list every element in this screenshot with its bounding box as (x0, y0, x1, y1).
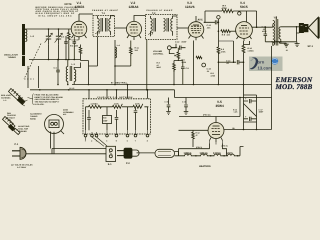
heater 12BA6 (192, 154, 208, 156)
heater 12AV6 (208, 154, 221, 156)
couplate resistor 1 (89, 105, 102, 108)
wire P-2 to socket (137, 152, 156, 154)
IF transformer T-2 (146, 15, 178, 40)
dashed gang link line (24, 44, 41, 80)
wire socket to heater string (175, 151, 179, 155)
wire R-8 to V-4 grid (230, 30, 236, 32)
antenna tuning label (4, 53, 18, 59)
resistor R-1 (67, 29, 70, 43)
wire grid line to V-1 (70, 28, 73, 30)
speaker SP-1 (299, 17, 318, 38)
svg-text:4.7MEG: 4.7MEG (91, 102, 99, 105)
resistor R-10 (242, 44, 245, 55)
wire heater string feed (239, 98, 241, 117)
filter capacitor network rails (244, 85, 257, 123)
resistor R-13 label (233, 108, 238, 113)
wire B+ vertical right rail (271, 46, 273, 130)
resistor R-5 label (182, 59, 187, 64)
wire T-2 secondary to V-3 grid (177, 27, 188, 29)
svg-text:.05MF: .05MF (181, 41, 187, 44)
resistor R-3 (173, 62, 176, 73)
resistor R-8 (221, 30, 231, 33)
capacitor C-14 (234, 60, 244, 64)
tube V-3 label (185, 1, 195, 9)
svg-text:.005: .005 (207, 27, 211, 30)
junction dots AVC line (48, 59, 70, 61)
svg-text:.01: .01 (286, 49, 289, 52)
terminal circle detector (202, 63, 206, 67)
variable capacitor C-1 (45, 29, 53, 44)
svg-text:MEG: MEG (157, 66, 162, 69)
couplate capacitor 3 (134, 108, 138, 130)
couplate capacitor 1 (87, 110, 91, 130)
ground tone capacitor (280, 42, 289, 47)
variable capacitor C-2 (55, 29, 63, 44)
watermark logo box (249, 57, 283, 72)
svg-text:SP-1: SP-1 (308, 45, 314, 48)
junction dots antenna line (48, 28, 60, 30)
tube V-5 label (216, 100, 225, 108)
svg-text:7: 7 (135, 139, 136, 142)
capacitor tone across T-3 (271, 40, 279, 44)
resistor R-12 (192, 130, 195, 147)
svg-text:150: 150 (227, 33, 230, 36)
alignment wand tip (14, 129, 20, 135)
alignment tuning wand label (18, 113, 42, 133)
tube V-1 12BE6 (71, 14, 87, 40)
resistor R-6 (196, 56, 202, 58)
svg-text:22K: 22K (75, 45, 79, 48)
couplate resistor 2 (113, 104, 123, 109)
terminal circle volume (167, 46, 171, 50)
svg-text:C-5 150: C-5 150 (72, 38, 79, 41)
svg-text:4: 4 (106, 139, 107, 142)
filter capacitor C-17B (244, 115, 257, 121)
wire branch vertical (233, 41, 235, 62)
svg-text:500K: 500K (182, 61, 187, 64)
capacitor C-17 label (259, 108, 265, 113)
rod antenna L-1 label (1, 94, 12, 102)
couplate terminal numbers (85, 139, 148, 142)
ground speaker return (295, 42, 300, 47)
junction dots AC bus (39, 89, 241, 98)
wire T-3 secondary bottom return (280, 39, 282, 42)
wire T-2 return to AC bus (146, 40, 148, 90)
svg-text:A-C ONLY: A-C ONLY (17, 166, 27, 169)
resistor R-10 label (248, 47, 255, 52)
svg-text:(PIN 4A): (PIN 4A) (203, 114, 211, 117)
svg-text:470K: 470K (114, 102, 119, 105)
resistor R-7 (222, 9, 233, 12)
svg-text:M-1: M-1 (63, 113, 66, 116)
wire V-2 cathode drop (130, 41, 132, 67)
wire AVC line to R-7 (204, 11, 222, 22)
wire R-7 to V-4 plate feed (233, 11, 256, 27)
svg-text:IN PLACE.: IN PLACE. (35, 103, 45, 106)
svg-text:12AV6: 12AV6 (185, 5, 195, 9)
wire B- neutral bus (72, 84, 272, 86)
junction dot plate line (256, 26, 266, 28)
wire AC line bus (30, 90, 272, 98)
coil L-4 (115, 47, 117, 58)
svg-text:PEAKED AT 455KC: PEAKED AT 455KC (92, 9, 118, 12)
junction dot (88, 84, 90, 86)
rod antenna L-1 drawing (9, 89, 28, 107)
wire T-1 secondary to V-2 grid (115, 27, 127, 29)
junction dot (280, 26, 297, 43)
junction dot (218, 22, 220, 33)
wire antenna top line (25, 28, 71, 31)
note text block (36, 3, 80, 17)
svg-text:2: 2 (91, 139, 92, 142)
resistor R-3 label (157, 61, 162, 69)
svg-text:R-2: R-2 (70, 45, 73, 48)
svg-text:C-12: C-12 (175, 41, 179, 44)
tube V-3 12AV6 (188, 16, 204, 40)
capacitor C-5 and resistor R-2 cluster labels (61, 36, 79, 48)
svg-text:S-1: S-1 (108, 163, 112, 166)
svg-text:12BA6: 12BA6 (129, 5, 139, 9)
wire AVC return line (29, 59, 81, 61)
wire C-16 bottom ground run (265, 41, 296, 43)
socket view M-1 (45, 115, 65, 135)
oscillator coil L-3 (66, 60, 80, 85)
capacitor C-14 label (226, 59, 231, 64)
capacitor C-15 (165, 98, 171, 112)
junction dots on AVC line (65, 59, 75, 61)
svg-text:MOD. 788B: MOD. 788B (275, 83, 313, 91)
svg-text:PEAKED AT 455KC: PEAKED AT 455KC (147, 9, 173, 12)
junction dot (114, 65, 116, 85)
heater 12BE6 (184, 154, 193, 156)
wire V-5 plate line (179, 129, 209, 131)
capacitor C-12 (171, 46, 185, 50)
junction dots on buses (88, 84, 148, 91)
wire V-2 cathode to bus (114, 40, 116, 85)
couplate resistor value labels (91, 102, 141, 105)
svg-text:B V-5: B V-5 (70, 87, 75, 90)
volume control label (153, 50, 164, 55)
svg-text:400V: 400V (262, 30, 267, 33)
capacitor C-16 value label (262, 25, 268, 33)
svg-text:50C5: 50C5 (240, 5, 248, 9)
capacitor C-4 (56, 60, 60, 85)
svg-text:47: 47 (196, 134, 198, 137)
resistor R-9 label (221, 48, 226, 53)
tube V-5 35W4 (208, 123, 224, 143)
svg-text:TUNING: TUNING (8, 56, 17, 59)
capacitor C-5 (73, 39, 77, 46)
tube V-5 pin stubs (210, 141, 223, 145)
junction dot (146, 89, 148, 91)
filter capacitor C-17A (244, 98, 257, 104)
capacitor C-9 (181, 65, 185, 72)
svg-text:NOTE: NOTE (65, 3, 72, 6)
wire C-1 C-2 bottoms to AVC line (49, 43, 69, 59)
wire AVC branch (218, 40, 233, 42)
svg-text:MARKER: MARKER (18, 130, 27, 133)
junction dot (57, 59, 68, 86)
svg-text:WAND: WAND (30, 117, 37, 120)
svg-text:.01: .01 (207, 70, 210, 73)
svg-text:C-18: C-18 (182, 100, 186, 103)
coil L-2 (25, 30, 27, 42)
tube V-1 label (75, 1, 85, 9)
svg-text:C-9: C-9 (186, 67, 189, 70)
wire filter to B+ rail (244, 122, 257, 130)
wire volume network verticals (169, 44, 183, 85)
resistor R-11 label (135, 47, 139, 52)
svg-text:5: 5 (116, 139, 117, 142)
wire R-9 bottom to bus (217, 53, 219, 85)
wire voice coil return vertical (297, 27, 300, 42)
wire V-3 cathode to bus (193, 41, 195, 85)
svg-text:R-8: R-8 (222, 33, 225, 36)
junction dots bus (173, 84, 194, 86)
junction terminal circle on B+ line (238, 12, 241, 15)
svg-text:(PIN 3): (PIN 3) (196, 146, 202, 149)
svg-text:1 MEG: 1 MEG (248, 49, 255, 52)
capacitor C-3 (64, 39, 68, 46)
tube V-4 50C5 (236, 22, 253, 41)
svg-text:L-1: L-1 (4, 99, 7, 102)
labels C-10 R-9 cluster (207, 67, 216, 77)
resistor R-2 (79, 45, 82, 57)
wire R-10 drops (243, 41, 245, 85)
capacitor C-16 across T-3 primary (252, 27, 267, 42)
svg-text:470K: 470K (221, 50, 226, 53)
IF transformer T-1 (93, 16, 115, 37)
svg-text:6: 6 (127, 139, 128, 142)
note pointer bracket (28, 94, 34, 106)
wire T-3 primary top stub (275, 16, 277, 19)
plug P-1 note text (11, 164, 33, 169)
wire V-1 cathode drops (66, 36, 74, 60)
svg-text:C-3: C-3 (61, 36, 64, 39)
potentiometer R-4 (175, 50, 180, 60)
svg-text:AVC: AVC (198, 18, 203, 21)
wire heater chain line (179, 144, 244, 156)
svg-text:13.com: 13.com (258, 66, 273, 71)
svg-text:500: 500 (103, 117, 106, 120)
junction dots B+ line (243, 129, 258, 131)
wire V-4 cathode stub (244, 41, 250, 45)
wires couplate terminals to switch row (86, 137, 108, 146)
ground C-15 (166, 112, 171, 115)
alignment wand bar (3, 117, 16, 131)
wire T-3 secondary to voice coil (281, 26, 300, 28)
wire L-4 return (115, 65, 131, 67)
svg-text:HEATERS: HEATERS (199, 165, 211, 168)
svg-text:1.2K: 1.2K (234, 111, 239, 114)
svg-text:35W4: 35W4 (216, 104, 225, 108)
wire heater B+ line (179, 117, 240, 123)
heater pin dots (195, 155, 238, 157)
svg-text:150: 150 (135, 49, 138, 52)
chassis layout note text (7, 112, 16, 125)
antenna wiring note text (35, 93, 64, 106)
wire bar bottom drop (24, 66, 39, 88)
wire T-1 return to oscillator section (89, 37, 98, 67)
ground C-18 (184, 112, 189, 115)
terminal circle AVC test point (217, 16, 220, 19)
interlock socket (155, 149, 175, 157)
svg-text:470K: 470K (211, 75, 216, 78)
svg-text:12BE6: 12BE6 (75, 5, 85, 9)
resistor R-12 label (196, 132, 200, 137)
wire V-5 cathode B+ out (224, 129, 272, 131)
tube V-2 12BA6 (126, 16, 145, 41)
wire heater pin line (179, 144, 210, 149)
couplate resistor 3 (133, 104, 143, 109)
couplate box (83, 99, 151, 134)
plug P-1 (12, 147, 26, 159)
heater 50C5 (222, 154, 240, 156)
couplate inner verticals (86, 107, 148, 130)
resistor R-11 (130, 47, 133, 56)
wire P-1 cord (26, 149, 106, 154)
wire AVC vertical (217, 19, 219, 47)
plug P-2 (117, 148, 139, 158)
socket view M-1 label (63, 108, 74, 116)
switch S-1 (106, 146, 116, 161)
resistor R-9 (217, 47, 220, 54)
loop antenna bar L-1 (22, 24, 25, 66)
tube V-4 label (240, 1, 248, 9)
couplate terminal circles (84, 134, 149, 137)
wires couplate tops to buses (89, 85, 148, 99)
svg-text:B- NEUTRAL: B- NEUTRAL (111, 82, 128, 85)
capacitor C-18 (182, 98, 188, 112)
couplate terminal stubs (86, 130, 148, 134)
svg-text:C-15: C-15 (165, 100, 169, 103)
svg-text:8: 8 (147, 139, 148, 142)
wire V-4 plate to T-3 (257, 24, 273, 27)
wire C-14 line (218, 61, 233, 63)
output transformer T-3 (273, 19, 281, 46)
svg-text:CONTROL: CONTROL (153, 53, 164, 56)
couplate wires top (86, 106, 149, 108)
capacitor C-13 (204, 20, 219, 24)
tube V-2 label (129, 1, 139, 9)
capacitor C-12 labels (175, 41, 187, 44)
svg-text:orn: orn (258, 60, 265, 65)
filter network diagonal (244, 104, 257, 117)
svg-text:DIAL ABOUT 161.5KC: DIAL ABOUT 161.5KC (39, 14, 73, 17)
couplate inner box (103, 116, 112, 124)
couplate capacitor 2 (115, 110, 119, 130)
wire V-1 plate to T-1 (B+ top line) (79, 13, 93, 15)
junction dots (218, 61, 245, 85)
wire L-3 bottoms to bus (68, 56, 89, 85)
wire socket M-1 leads (51, 132, 55, 154)
